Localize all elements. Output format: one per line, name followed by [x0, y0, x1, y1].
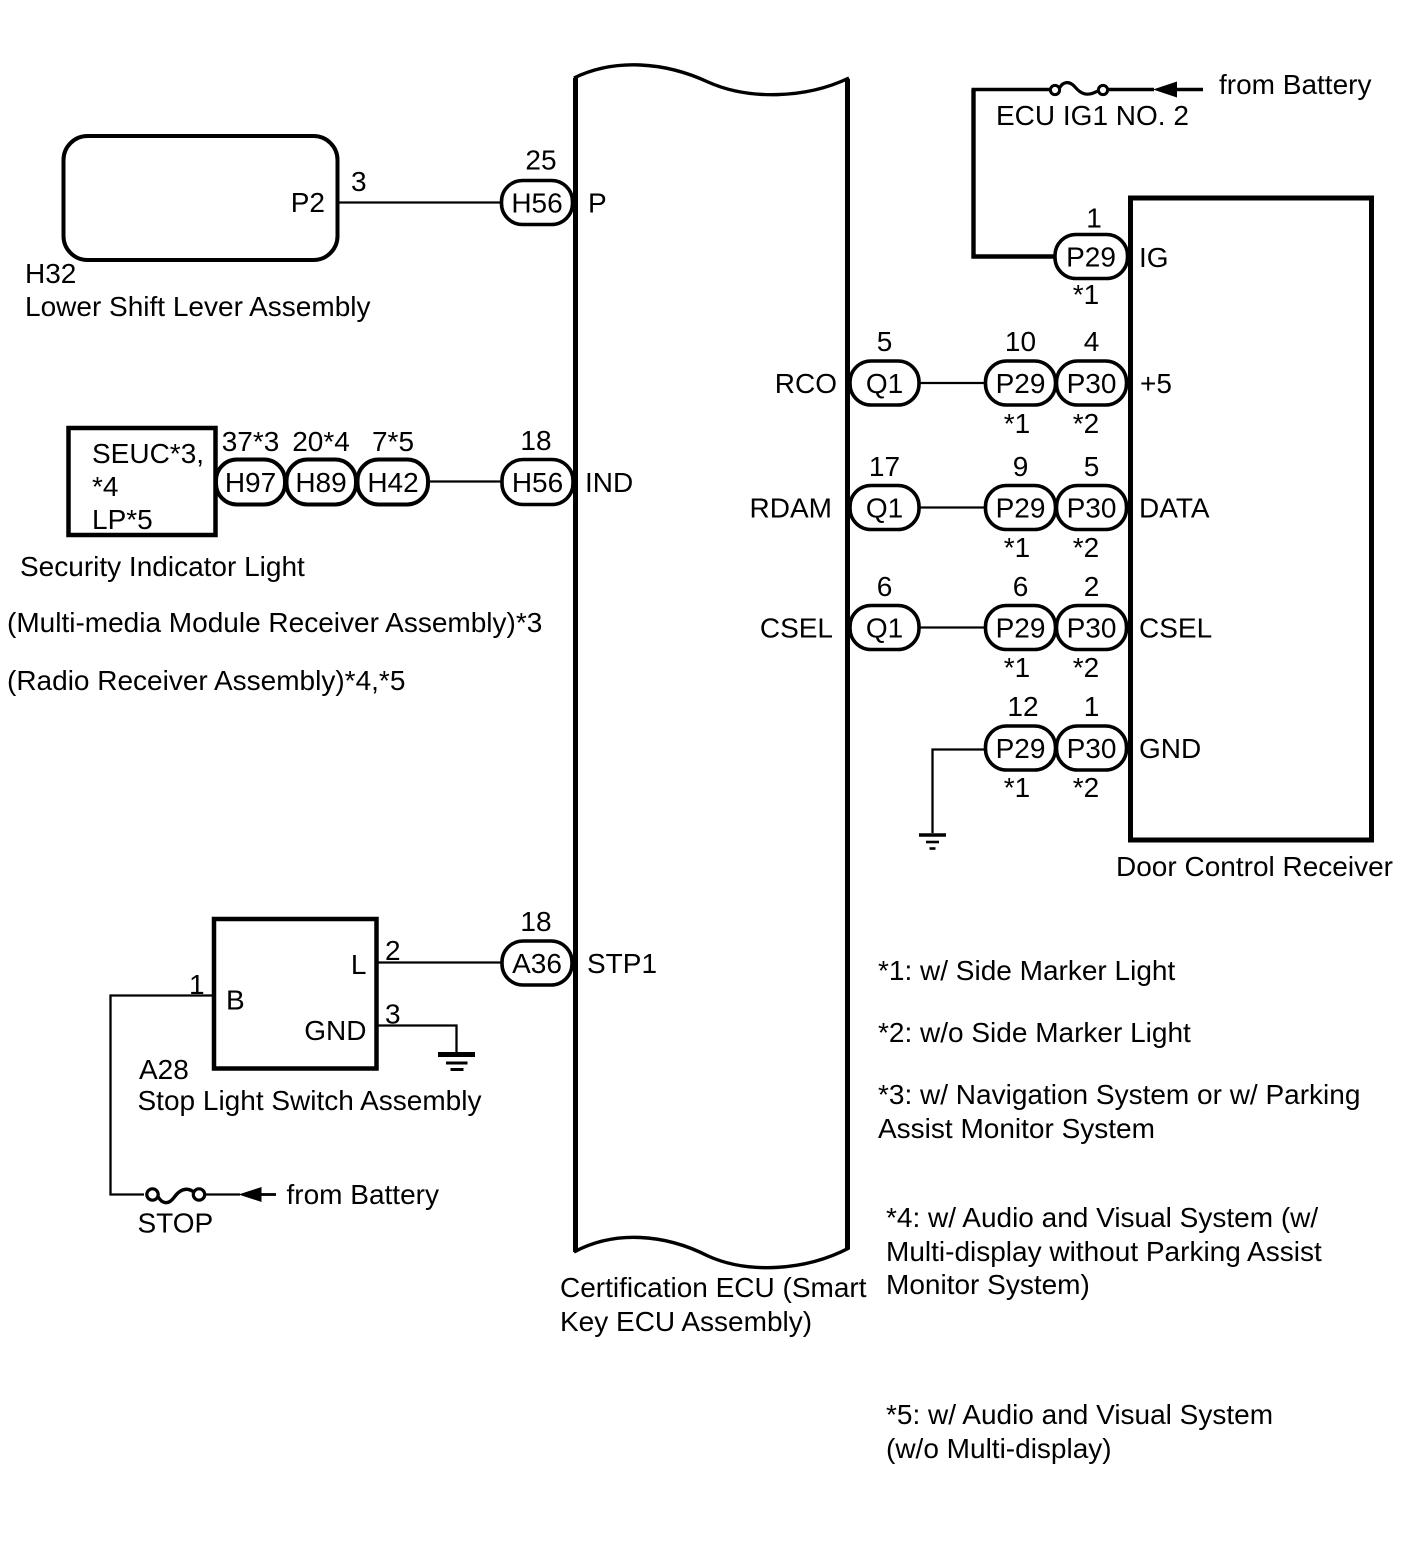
- ECU IG1 fuse right contact: [1098, 85, 1107, 94]
- wire Q1 to P29 (RCO): [919, 382, 986, 384]
- svg-text:GND: GND: [304, 1015, 366, 1046]
- svg-text:P30: P30: [1067, 493, 1117, 524]
- svg-text:Q1: Q1: [866, 368, 903, 399]
- svg-text:GND: GND: [1139, 733, 1201, 764]
- connector H56 (pin IND): [502, 460, 573, 505]
- svg-text:P29: P29: [996, 733, 1046, 764]
- Certification ECU top torn edge: [574, 65, 849, 95]
- wire fuse to arrow (top): [1107, 88, 1154, 92]
- connector P29 (RDAM): [986, 486, 1056, 530]
- svg-text:4: 4: [1084, 326, 1100, 357]
- wire L to A36: [377, 961, 503, 963]
- svg-text:(Radio Receiver Assembly)*4,*5: (Radio Receiver Assembly)*4,*5: [7, 665, 405, 696]
- svg-text:Door Control Receiver: Door Control Receiver: [1116, 851, 1393, 882]
- svg-text:3: 3: [351, 166, 367, 197]
- svg-text:STP1: STP1: [587, 948, 657, 979]
- svg-text:10: 10: [1005, 326, 1036, 357]
- svg-text:*1: *1: [1073, 279, 1099, 310]
- wire Q1 to P29 (CSEL): [919, 626, 986, 628]
- svg-text:H42: H42: [367, 467, 418, 498]
- svg-text:Q1: Q1: [866, 493, 903, 524]
- svg-text:Monitor System): Monitor System): [886, 1269, 1090, 1300]
- wire H42 to H56: [428, 480, 502, 482]
- svg-text:*1: *1: [1004, 652, 1030, 683]
- svg-text:*1: *1: [1004, 772, 1030, 803]
- svg-text:H32: H32: [25, 258, 76, 289]
- svg-text:7*5: 7*5: [372, 426, 414, 457]
- svg-text:SEUC*3,: SEUC*3,: [92, 438, 204, 469]
- svg-text:(w/o Multi-display): (w/o Multi-display): [886, 1433, 1112, 1464]
- connector H32 box (Lower Shift Lever Assembly): [64, 136, 338, 260]
- arrow from Battery (top): [1153, 82, 1177, 98]
- svg-text:Key ECU Assembly): Key ECU Assembly): [560, 1306, 812, 1337]
- arrow from Battery (bottom): [239, 1187, 262, 1202]
- connector P29 (RCO): [986, 361, 1056, 405]
- svg-text:18: 18: [520, 906, 551, 937]
- connector Q1 (RCO): [850, 361, 919, 405]
- svg-text:18: 18: [520, 425, 551, 456]
- svg-text:5: 5: [877, 326, 893, 357]
- svg-text:P30: P30: [1067, 733, 1117, 764]
- svg-text:P29: P29: [996, 493, 1046, 524]
- svg-text:Q1: Q1: [866, 613, 903, 644]
- svg-text:*1: w/ Side Marker Light: *1: w/ Side Marker Light: [878, 955, 1175, 986]
- svg-text:from Battery: from Battery: [1219, 69, 1371, 100]
- svg-text:Certification ECU (Smart: Certification ECU (Smart: [560, 1272, 867, 1303]
- connector A36: [502, 941, 572, 985]
- svg-text:CSEL: CSEL: [760, 613, 833, 644]
- ECU IG1 fuse left contact: [1050, 85, 1059, 94]
- svg-text:P29: P29: [1066, 242, 1116, 273]
- svg-text:B: B: [226, 985, 245, 1016]
- STOP fuse right contact: [193, 1189, 204, 1200]
- svg-text:L: L: [351, 949, 367, 980]
- Certification ECU right edge: [845, 79, 850, 1249]
- connector H89: [287, 460, 357, 505]
- STOP fuse element: [158, 1189, 193, 1202]
- svg-text:from Battery: from Battery: [287, 1179, 439, 1210]
- wire fuse to arrow: [205, 1193, 241, 1195]
- wire GND pin to ground: [377, 1026, 457, 1053]
- connector Q1 (RDAM): [850, 486, 919, 530]
- Certification ECU left edge: [573, 78, 578, 1252]
- svg-text:*4: w/ Audio and Visual System: *4: w/ Audio and Visual System (w/: [886, 1202, 1318, 1233]
- svg-text:2: 2: [1084, 571, 1100, 602]
- Certification ECU bottom torn edge: [574, 1237, 849, 1267]
- STOP fuse left contact: [147, 1189, 158, 1200]
- connector P29 (CSEL): [986, 606, 1056, 650]
- svg-text:DATA: DATA: [1139, 493, 1210, 524]
- svg-text:6: 6: [877, 571, 893, 602]
- wire P2 to H56: [338, 201, 502, 203]
- svg-text:*1: *1: [1004, 408, 1030, 439]
- svg-text:IG: IG: [1139, 242, 1169, 273]
- svg-text:Stop Light Switch Assembly: Stop Light Switch Assembly: [138, 1085, 482, 1116]
- battery feed down wire: [974, 90, 1055, 257]
- svg-text:1: 1: [1086, 203, 1102, 234]
- connector H42: [358, 460, 429, 505]
- svg-text:STOP: STOP: [138, 1208, 214, 1239]
- svg-text:25: 25: [525, 145, 556, 176]
- battery feed wire (top right): [972, 88, 1051, 92]
- svg-text:A28: A28: [139, 1054, 189, 1085]
- svg-text:P30: P30: [1067, 613, 1117, 644]
- svg-text:1: 1: [1084, 691, 1100, 722]
- svg-text:P29: P29: [996, 368, 1046, 399]
- svg-text:(Multi-media Module Receiver A: (Multi-media Module Receiver Assembly)*3: [7, 607, 542, 638]
- Door Control Receiver box: [1131, 198, 1372, 840]
- svg-text:H89: H89: [295, 467, 346, 498]
- Security Indicator Light box: [69, 428, 216, 535]
- wire B pin to left: [111, 996, 215, 1195]
- connector H56 (pin P): [502, 181, 573, 225]
- svg-text:5: 5: [1084, 451, 1100, 482]
- svg-text:IND: IND: [585, 467, 633, 498]
- connector P29 (GND): [986, 726, 1056, 770]
- connector P30 (RDAM): [1057, 486, 1127, 530]
- connector P30 (RCO): [1057, 361, 1127, 405]
- Stop Light Switch Assembly box A28: [214, 919, 377, 1069]
- svg-text:Security Indicator Light: Security Indicator Light: [20, 551, 305, 582]
- ground symbol (door control receiver): [919, 835, 946, 849]
- svg-text:P2: P2: [291, 187, 325, 218]
- svg-text:CSEL: CSEL: [1139, 613, 1212, 644]
- connector P29 (IG): [1055, 235, 1128, 279]
- svg-text:H97: H97: [225, 467, 276, 498]
- svg-text:*2: w/o Side Marker Light: *2: w/o Side Marker Light: [878, 1017, 1191, 1048]
- svg-text:P: P: [588, 188, 607, 219]
- svg-text:Assist Monitor System: Assist Monitor System: [878, 1113, 1155, 1144]
- svg-text:*2: *2: [1073, 408, 1099, 439]
- svg-text:RDAM: RDAM: [750, 493, 832, 524]
- svg-text:P30: P30: [1067, 368, 1117, 399]
- wire ground to P29 (GND row): [933, 750, 986, 834]
- svg-text:+5: +5: [1140, 368, 1172, 399]
- svg-text:20*4: 20*4: [292, 426, 350, 457]
- svg-text:12: 12: [1007, 691, 1038, 722]
- svg-text:*1: *1: [1004, 532, 1030, 563]
- svg-text:ECU IG1 NO. 2: ECU IG1 NO. 2: [996, 100, 1189, 131]
- connector P30 (GND): [1057, 726, 1127, 770]
- ground symbol (stop light switch): [438, 1055, 475, 1070]
- svg-text:RCO: RCO: [775, 368, 837, 399]
- svg-text:*2: *2: [1073, 532, 1099, 563]
- svg-text:LP*5: LP*5: [92, 504, 153, 535]
- svg-text:9: 9: [1013, 451, 1029, 482]
- svg-text:*4: *4: [92, 471, 118, 502]
- svg-text:*2: *2: [1073, 652, 1099, 683]
- svg-text:Lower Shift Lever Assembly: Lower Shift Lever Assembly: [25, 291, 371, 322]
- wire Q1 to P29 (RDAM): [919, 506, 986, 508]
- connector H97: [216, 460, 285, 505]
- connector P30 (CSEL): [1057, 606, 1127, 650]
- svg-text:Multi-display without Parking: Multi-display without Parking Assist: [886, 1236, 1322, 1267]
- ECU IG1 fuse element: [1060, 83, 1099, 95]
- svg-text:37*3: 37*3: [222, 426, 280, 457]
- svg-text:H56: H56: [511, 188, 562, 219]
- svg-text:*3: w/ Navigation System or w/: *3: w/ Navigation System or w/ Parking: [878, 1079, 1360, 1110]
- svg-text:*2: *2: [1073, 772, 1099, 803]
- svg-text:17: 17: [869, 451, 900, 482]
- svg-text:*5: w/ Audio and Visual System: *5: w/ Audio and Visual System: [886, 1399, 1273, 1430]
- svg-text:P29: P29: [996, 613, 1046, 644]
- svg-text:6: 6: [1013, 571, 1029, 602]
- svg-text:A36: A36: [512, 948, 562, 979]
- connector Q1 (CSEL): [850, 606, 919, 650]
- svg-text:H56: H56: [512, 467, 563, 498]
